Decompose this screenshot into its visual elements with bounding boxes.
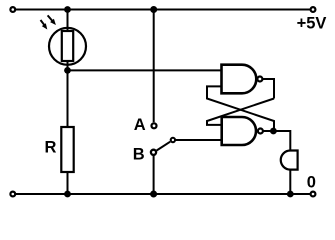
wire LDR branch vertical [67,10,69,71]
LDR element rectangle [62,31,73,61]
wire switch to bottom gate input [176,139,225,141]
svg-text:A: A [134,116,146,134]
junction dot bottom rail below resistor [64,191,71,198]
wire bottom gate output to buzzer [258,131,290,152]
svg-text:R: R [45,138,57,156]
NAND gate U1a output bubble [257,77,262,82]
wire feedback diagonal Q to bottom gate upper input [207,99,274,125]
junction dot top rail above LDR [64,6,71,13]
terminal top-right +5V [311,7,316,12]
terminal top-left [10,7,15,12]
LDR photoresistor circle [49,28,86,65]
NAND gate U1b body [222,117,256,145]
wire feedback diagonal Qbar to top gate lower input [207,86,274,131]
wire node A vertical [153,10,155,123]
wire resistor branch vertical [67,70,69,194]
junction dot bottom rail node B [150,191,157,198]
terminal bottom-right 0V [311,192,316,197]
wire bottom rail [13,193,313,195]
junction dot bottom rail buzzer [287,191,294,198]
svg-text:B: B [133,146,145,164]
wire top gate output to feedback corner [258,79,274,99]
junction dot bottom gate output [270,128,277,135]
wire node B to bottom rail [153,156,155,195]
terminal node B [151,150,156,155]
wire buzzer to bottom rail [289,168,291,194]
switch contact circle [171,138,175,142]
junction dot LDR / resistor / gate node [64,67,71,74]
light arrow 2 [48,15,56,25]
junction dot top rail node A [150,6,157,13]
svg-text:0: 0 [307,173,316,191]
wire top rail [13,9,313,11]
light arrow 1 [41,20,48,30]
buzzer [281,151,298,170]
wire LDR junction to top gate input [68,69,225,71]
switch lever B [157,142,171,151]
svg-text:+5V: +5V [297,15,327,33]
NAND gate U1a body [222,65,257,94]
resistor R body [61,127,73,172]
NAND gate U1b output bubble [258,129,263,134]
terminal bottom-left [10,192,15,197]
terminal node A [152,123,157,128]
